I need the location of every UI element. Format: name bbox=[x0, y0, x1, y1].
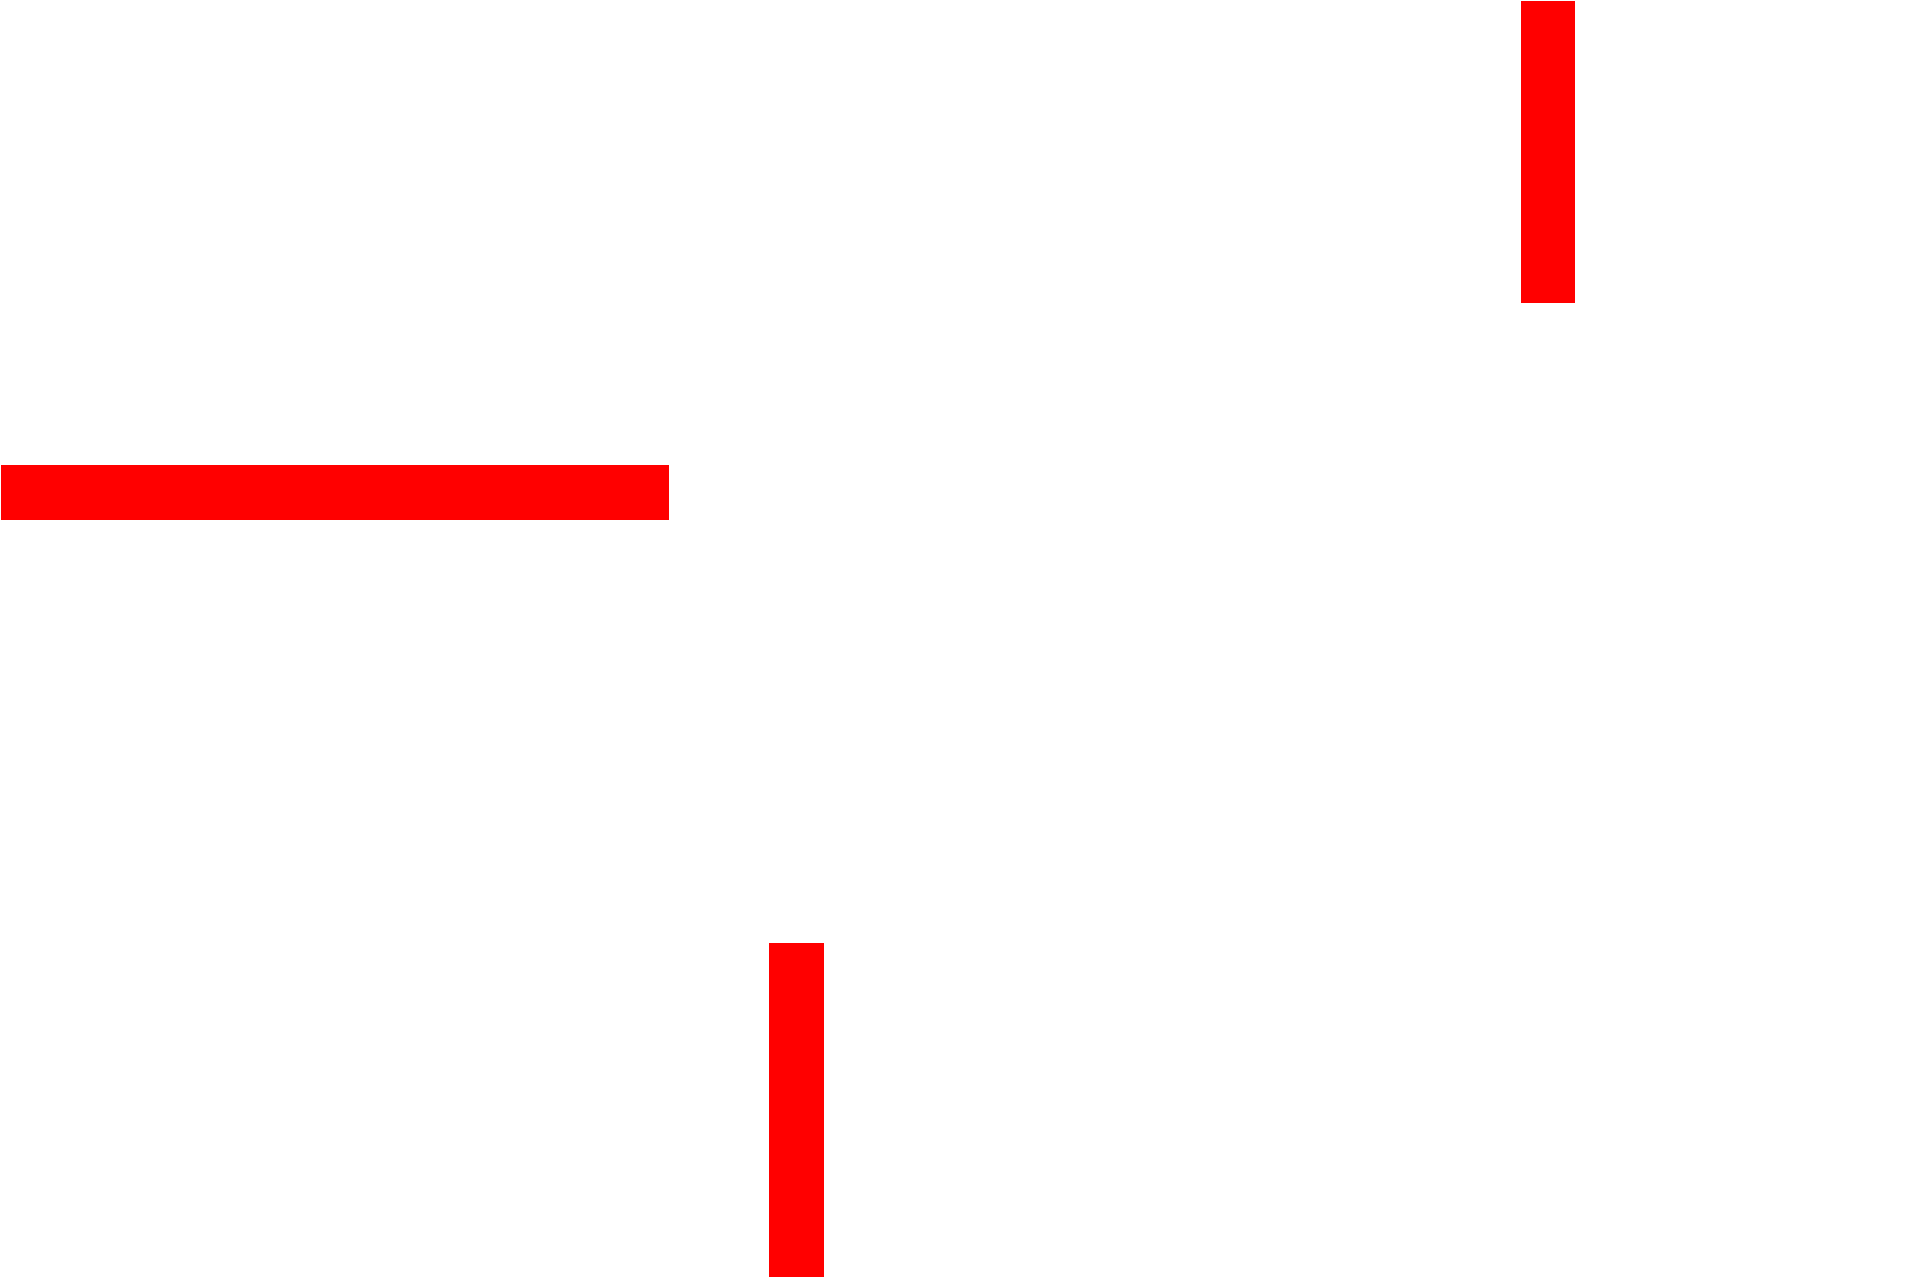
red bar left-middle (horizontal) bbox=[1, 465, 669, 520]
red bar bottom-center (vertical) bbox=[769, 943, 824, 1277]
red bar top-right (vertical) bbox=[1521, 1, 1575, 303]
